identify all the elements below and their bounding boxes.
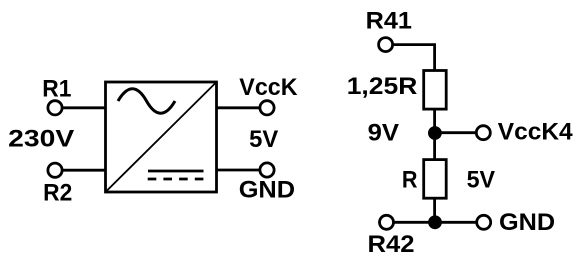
svg-text:R41: R41 bbox=[366, 8, 413, 34]
svg-text:R2: R2 bbox=[43, 179, 72, 206]
svg-text:GND: GND bbox=[239, 177, 295, 203]
svg-text:230V: 230V bbox=[8, 125, 75, 152]
svg-text:VccK4: VccK4 bbox=[498, 119, 573, 146]
svg-text:1,25R: 1,25R bbox=[347, 73, 418, 100]
svg-text:VccK: VccK bbox=[239, 75, 297, 101]
svg-text:R42: R42 bbox=[367, 232, 414, 258]
svg-text:GND: GND bbox=[499, 210, 555, 236]
svg-text:9V: 9V bbox=[368, 120, 400, 146]
svg-text:R1: R1 bbox=[42, 75, 71, 102]
svg-text:5V: 5V bbox=[249, 126, 278, 153]
svg-text:R: R bbox=[402, 165, 418, 192]
svg-text:5V: 5V bbox=[467, 167, 496, 193]
